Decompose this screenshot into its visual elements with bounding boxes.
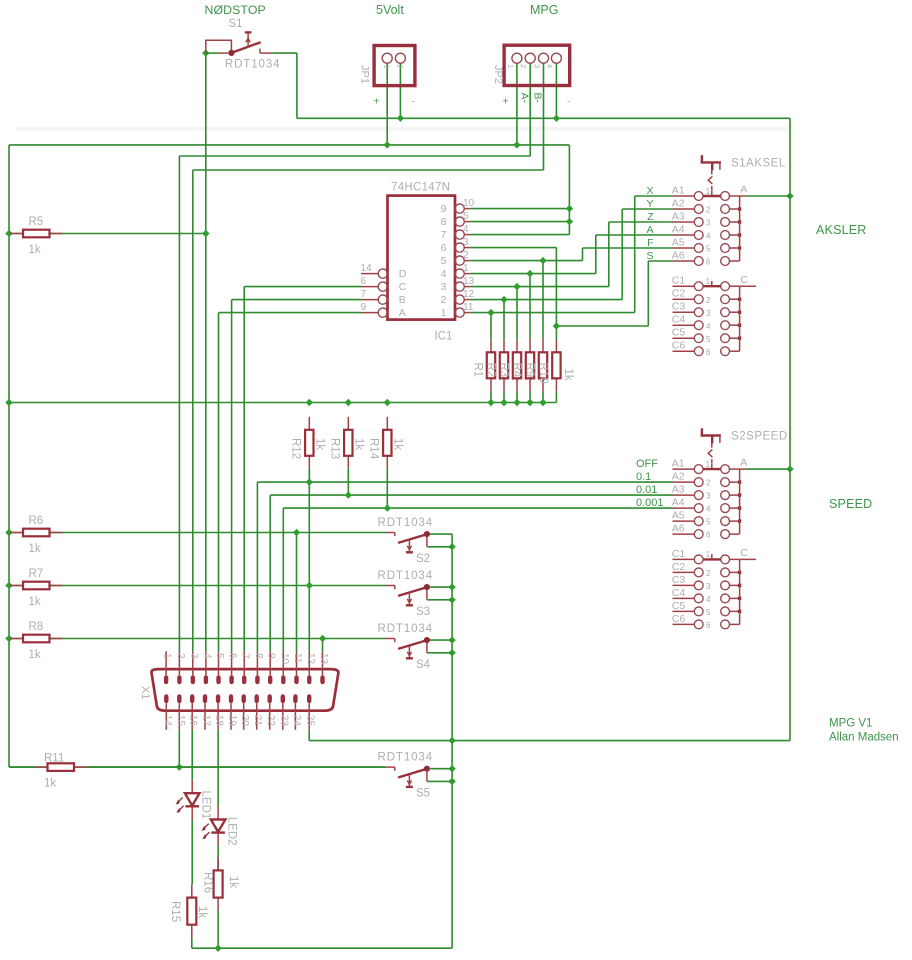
junction resistor bus xyxy=(500,399,507,406)
IC1 pin 5 xyxy=(441,211,471,228)
svg-text:A2: A2 xyxy=(672,197,685,209)
svg-text:R12: R12 xyxy=(290,438,302,459)
X1 pin 25 xyxy=(305,694,316,730)
wire X1 pin4 vertical NODSTOP xyxy=(205,53,207,651)
svg-text:1: 1 xyxy=(463,263,469,274)
svg-text:X1: X1 xyxy=(139,686,151,699)
wire col6 vertical xyxy=(555,248,557,340)
svg-text:A6: A6 xyxy=(672,523,685,535)
svg-text:C: C xyxy=(740,547,748,559)
svg-text:+: + xyxy=(503,96,509,108)
X1 pin 2 xyxy=(175,651,186,684)
wire resistor bank col1 top xyxy=(490,313,492,340)
svg-text:C2: C2 xyxy=(672,288,686,300)
svg-text:A3: A3 xyxy=(672,484,685,496)
svg-text:1k: 1k xyxy=(29,244,41,256)
X1 pin 3 xyxy=(188,651,199,684)
switch S1 RDT1034 NODSTOP xyxy=(202,32,297,56)
svg-text:5: 5 xyxy=(706,518,711,527)
wire IC pin4 row xyxy=(470,234,569,236)
svg-text:AKSLER: AKSLER xyxy=(816,223,867,237)
wire speed 0.01 row xyxy=(270,494,672,496)
junction resistor bus xyxy=(487,399,494,406)
wire resistor bank col6 bottom xyxy=(555,391,557,402)
svg-text:1: 1 xyxy=(706,277,711,286)
wire R15 bottom xyxy=(191,938,193,949)
junction bus / R12 xyxy=(306,399,313,406)
svg-text:1k: 1k xyxy=(227,876,239,888)
X1 pin 13 xyxy=(318,651,329,684)
X1 pin 8 xyxy=(253,651,264,684)
wire R12 bottom xyxy=(308,469,310,482)
resistor R9 xyxy=(542,339,544,352)
resistor R1 xyxy=(490,339,492,352)
rotary contact row C4 xyxy=(672,314,742,331)
junction 5V jog / IC pin10 xyxy=(566,205,573,212)
rotary contact row A5 xyxy=(647,236,741,253)
svg-text:C5: C5 xyxy=(672,327,686,339)
junction rail / S5 lower xyxy=(448,778,455,785)
svg-text:1: 1 xyxy=(441,307,447,319)
wire net X row xyxy=(635,195,673,197)
junction resistor bus xyxy=(513,399,520,406)
wire resistor bus xyxy=(9,402,556,404)
svg-text:1k: 1k xyxy=(392,438,404,450)
wire left rail xyxy=(8,145,10,767)
junction S1 net / JP2 pin4 xyxy=(553,115,560,122)
svg-text:12: 12 xyxy=(305,653,316,665)
svg-text:5: 5 xyxy=(214,653,225,659)
wire JP1 pin2 drop xyxy=(399,63,401,118)
svg-text:C6: C6 xyxy=(672,340,686,352)
svg-text:C3: C3 xyxy=(672,574,686,586)
wire IC pin10 row xyxy=(470,208,569,210)
wire net F riser xyxy=(582,248,584,261)
wire net Z row xyxy=(609,221,673,223)
svg-text:R1: R1 xyxy=(472,363,484,378)
svg-text:10: 10 xyxy=(279,653,290,665)
wire IC output B xyxy=(232,299,361,301)
X1 pin 17 xyxy=(201,694,212,730)
svg-text:RDT1034: RDT1034 xyxy=(378,570,434,582)
svg-text:1: 1 xyxy=(162,653,173,659)
wire X1 pin7 vertical xyxy=(243,287,245,652)
wire resistor bank col3 bottom xyxy=(516,391,518,402)
svg-text:11: 11 xyxy=(463,302,474,313)
IC U1 74HC147N body xyxy=(388,196,456,320)
svg-text:5: 5 xyxy=(706,245,711,254)
svg-text:R8: R8 xyxy=(29,621,44,633)
X1 pin 10 xyxy=(279,651,290,684)
svg-text:17: 17 xyxy=(201,715,212,727)
svg-text:RDT1034: RDT1034 xyxy=(378,517,434,529)
svg-text:R15: R15 xyxy=(169,901,181,922)
svg-text:IC1: IC1 xyxy=(435,331,453,343)
svg-text:2: 2 xyxy=(519,64,528,68)
rotary contact row C5 xyxy=(672,600,742,617)
svg-text:SPEED: SPEED xyxy=(829,497,872,511)
IC1 pin 14 (D) xyxy=(361,263,407,280)
wire X1 pin16 drop to LED1 xyxy=(191,730,193,780)
X1 pin 4 xyxy=(201,651,212,684)
wire S1 net horizontal xyxy=(297,117,790,119)
svg-text:4: 4 xyxy=(201,653,212,659)
svg-text:C1: C1 xyxy=(672,275,686,287)
svg-text:4: 4 xyxy=(545,64,554,68)
svg-text:A4: A4 xyxy=(672,497,685,509)
svg-text:5: 5 xyxy=(706,335,711,344)
junction resistor bus xyxy=(526,399,533,406)
svg-text:74HC147N: 74HC147N xyxy=(391,182,450,194)
svg-text:-: - xyxy=(412,96,416,108)
svg-text:Y: Y xyxy=(646,198,653,210)
svg-text:JP1: JP1 xyxy=(359,65,371,84)
junction IC pin12 row / col2 xyxy=(500,296,507,303)
rotary contact row C4 xyxy=(672,587,742,604)
junction left rail / R8 xyxy=(5,635,12,642)
LED LED1 xyxy=(176,780,200,819)
wire net Z riser xyxy=(608,222,610,287)
junction 0.01 row / R13 xyxy=(345,491,352,498)
switch S1AKSEL shaft bracket xyxy=(701,155,721,190)
svg-text:3: 3 xyxy=(441,281,447,293)
rotary contact row A1 xyxy=(646,184,739,200)
svg-text:23: 23 xyxy=(278,715,289,727)
svg-text:6: 6 xyxy=(227,653,238,659)
svg-text:3: 3 xyxy=(188,653,199,659)
wire X1 pin2 vertical xyxy=(178,156,180,651)
wire net Y row xyxy=(622,208,672,210)
wire X1 pin8 vertical xyxy=(256,482,258,651)
svg-text:C6: C6 xyxy=(672,613,686,625)
svg-text:4: 4 xyxy=(706,505,711,514)
svg-text:0.1: 0.1 xyxy=(636,471,651,483)
wire JP2 B- run xyxy=(543,63,545,170)
svg-text:1k: 1k xyxy=(29,596,41,608)
junction IC pin13 row / col3 xyxy=(513,283,520,290)
junction left rail / R6 xyxy=(5,529,12,536)
svg-text:16: 16 xyxy=(188,715,199,727)
switch S5 RDT1034 xyxy=(378,752,453,800)
svg-text:RDT1034: RDT1034 xyxy=(378,752,434,764)
svg-text:R16: R16 xyxy=(202,872,214,893)
wire resistor bank col4 bottom xyxy=(529,391,531,402)
junction 5V jog / IC pin5 xyxy=(566,218,573,225)
svg-text:6: 6 xyxy=(361,276,367,287)
wire resistor bank col5 bottom xyxy=(542,391,544,402)
common pin wire to rail xyxy=(740,468,746,470)
svg-text:5: 5 xyxy=(463,211,469,222)
svg-text:14: 14 xyxy=(361,263,373,274)
wire R11 left xyxy=(9,766,35,768)
wire X1 pin13 vertical xyxy=(322,639,324,652)
junction left rail / R5 xyxy=(5,230,12,237)
junction rail / S4 pivot xyxy=(448,636,455,643)
resistor R14 xyxy=(386,417,388,430)
svg-text:A4: A4 xyxy=(672,223,685,235)
rotary contact row A6 xyxy=(646,249,739,266)
svg-text:1: 1 xyxy=(706,187,711,196)
IC1 pin 2 xyxy=(441,250,471,267)
junction R5 / NODSTOP net xyxy=(202,230,209,237)
junction bus / R14 xyxy=(384,399,391,406)
svg-text:10: 10 xyxy=(463,198,475,209)
IC1 pin 4 xyxy=(441,224,471,241)
wire S1 net drop xyxy=(296,53,298,118)
wire JP1 pin1 drop xyxy=(386,63,388,145)
rotary contact row C6 xyxy=(672,340,740,357)
svg-text:R4: R4 xyxy=(511,363,523,378)
svg-text:R13: R13 xyxy=(329,438,341,459)
svg-text:C4: C4 xyxy=(672,587,686,599)
svg-text:7: 7 xyxy=(441,229,447,241)
svg-text:25: 25 xyxy=(305,715,316,727)
svg-text:C1: C1 xyxy=(672,548,686,560)
resistor R12 xyxy=(308,417,310,430)
svg-text:6: 6 xyxy=(706,531,711,540)
junction rail / SPEED common xyxy=(786,465,793,472)
rotary common bar xyxy=(739,469,741,534)
svg-text:R11: R11 xyxy=(44,753,64,765)
svg-text:MPG: MPG xyxy=(530,3,558,17)
svg-text:C4: C4 xyxy=(672,314,686,326)
wire IC pin3 row xyxy=(470,247,556,249)
X1 pin 19 xyxy=(227,694,238,730)
wire net Y riser xyxy=(621,209,623,300)
svg-text:3: 3 xyxy=(463,237,469,248)
svg-text:C3: C3 xyxy=(672,301,686,313)
svg-text:2: 2 xyxy=(706,206,711,215)
wire R11 right xyxy=(87,766,386,768)
wire R13 bottom xyxy=(347,469,349,495)
svg-text:R6: R6 xyxy=(29,515,44,527)
IC1 pin 1 xyxy=(441,263,471,280)
wire LED2 to R16 xyxy=(217,845,219,870)
X1 pin 23 xyxy=(278,694,289,730)
svg-text:A5: A5 xyxy=(672,236,685,248)
svg-text:11: 11 xyxy=(292,653,303,664)
resistor R8 xyxy=(10,638,23,640)
svg-text:1: 1 xyxy=(506,64,515,68)
wire 5V bus vertical jog xyxy=(568,145,570,235)
X1 pin 14 xyxy=(162,694,173,730)
svg-text:C: C xyxy=(740,274,748,286)
wire JP2 A- run xyxy=(529,63,531,156)
svg-text:4: 4 xyxy=(706,322,711,331)
svg-text:4: 4 xyxy=(706,232,711,241)
IC1 pin 6 (C) xyxy=(361,276,407,293)
wire X1 pin11 vertical xyxy=(296,533,298,652)
svg-text:S4: S4 xyxy=(416,659,431,671)
svg-text:A2: A2 xyxy=(672,471,685,483)
junction IC pin1 row / col4 xyxy=(526,270,533,277)
wire IC pin2 row xyxy=(470,260,582,262)
junction 5V bus / JP1 pin1 xyxy=(384,141,391,148)
svg-text:S1AKSEL: S1AKSEL xyxy=(731,158,786,170)
IC1 pin 12 xyxy=(441,289,475,306)
svg-text:Allan Madsen: Allan Madsen xyxy=(829,732,899,744)
svg-text:4: 4 xyxy=(441,268,447,280)
svg-text:1k: 1k xyxy=(196,906,208,918)
rotary contact row C6 xyxy=(672,613,740,630)
junction rail / S3 lower xyxy=(448,596,455,603)
svg-text:R14: R14 xyxy=(368,438,380,460)
rotary contact row A4 xyxy=(636,497,741,514)
common pin stub xyxy=(740,285,756,287)
rotary contact row A1 xyxy=(636,458,740,474)
wire IC pin13 row xyxy=(470,286,609,288)
svg-text:24: 24 xyxy=(291,715,302,727)
faint scan artifact band xyxy=(16,127,790,131)
wire speed 0.1 row xyxy=(257,481,672,483)
svg-text:C5: C5 xyxy=(672,600,686,612)
X1 pin 12 xyxy=(305,651,316,684)
wire net S riser xyxy=(647,261,649,326)
svg-text:R7: R7 xyxy=(29,568,44,580)
rotary contact row C1 xyxy=(672,275,740,291)
svg-text:7: 7 xyxy=(361,289,367,300)
X1 pin 15 xyxy=(175,694,186,730)
svg-text:5: 5 xyxy=(706,608,711,617)
resistor R10 xyxy=(555,339,557,352)
svg-text:B: B xyxy=(399,294,406,306)
wire resistor bank col3 top xyxy=(516,287,518,340)
wire R11 row xyxy=(9,766,386,768)
resistor R6 xyxy=(10,532,23,534)
wire R6 row xyxy=(9,532,386,534)
wire net A row xyxy=(596,234,673,236)
junction col6 / net S xyxy=(553,322,560,329)
svg-text:A: A xyxy=(399,307,406,319)
svg-text:2: 2 xyxy=(706,296,711,305)
wire resistor bank col2 bottom xyxy=(503,391,505,402)
wire net S horizontal xyxy=(556,325,648,327)
svg-text:1: 1 xyxy=(706,460,711,469)
wire IC pin11 row xyxy=(470,312,634,314)
rotary common bar xyxy=(739,196,741,261)
svg-text:S2: S2 xyxy=(416,553,430,565)
svg-text:8: 8 xyxy=(253,653,264,659)
wire IC pin5 row xyxy=(470,221,569,223)
common pin stub xyxy=(740,558,756,560)
resistor R7 xyxy=(10,585,23,587)
wire IC output C xyxy=(244,286,361,288)
svg-text:2: 2 xyxy=(441,294,447,306)
svg-text:R9: R9 xyxy=(524,363,536,378)
wire X1 pin12 vertical xyxy=(308,469,310,652)
wire R14 bottom xyxy=(386,469,388,508)
junction IC pin2 row / col5 xyxy=(539,257,546,264)
X1 pin 21 xyxy=(252,694,263,730)
svg-text:JP2: JP2 xyxy=(492,65,504,84)
svg-text:LED2: LED2 xyxy=(225,817,237,846)
svg-text:7: 7 xyxy=(240,653,251,659)
svg-text:13: 13 xyxy=(463,276,475,287)
wire net A riser xyxy=(595,235,597,274)
LED LED2 xyxy=(202,807,226,846)
svg-text:A-: A- xyxy=(518,93,530,104)
junction bottom return / switch rail xyxy=(448,737,455,744)
rotary contact row C3 xyxy=(672,301,742,318)
wire X1 pin15 drop xyxy=(178,730,180,767)
svg-text:1k: 1k xyxy=(562,369,574,381)
IC1 pin 3 xyxy=(441,237,471,254)
rotary contact row A3 xyxy=(647,210,741,227)
svg-text:D: D xyxy=(399,268,407,280)
svg-text:12: 12 xyxy=(463,289,475,300)
svg-text:A: A xyxy=(740,184,747,196)
X1 pin 9 xyxy=(266,651,277,684)
svg-text:9: 9 xyxy=(361,302,367,313)
IC1 pin 9 (A) xyxy=(361,302,406,319)
junction left rail / bus xyxy=(5,399,12,406)
svg-text:3: 3 xyxy=(706,492,711,501)
connector X1 DB25 shell xyxy=(151,669,338,711)
svg-text:C: C xyxy=(399,281,407,293)
wire R16 bottom xyxy=(217,911,219,949)
svg-text:A3: A3 xyxy=(672,210,685,222)
svg-text:LED1: LED1 xyxy=(200,791,212,820)
svg-text:4: 4 xyxy=(463,224,469,235)
rotary contact row A6 xyxy=(672,523,740,540)
junction rail / S4 lower xyxy=(448,649,455,656)
junction bus / R13 xyxy=(345,399,352,406)
wire R5 row xyxy=(9,233,206,235)
svg-text:9: 9 xyxy=(266,653,277,659)
svg-text:RDT1034: RDT1034 xyxy=(378,623,434,635)
rotary common bar xyxy=(739,286,741,351)
svg-text:2: 2 xyxy=(396,65,405,69)
wire resistor bank col2 top xyxy=(503,300,505,340)
junction rail / S3 pivot xyxy=(448,583,455,590)
common pin wire to rail xyxy=(740,195,746,197)
svg-text:X: X xyxy=(646,185,653,197)
junction IC pin11 row / col1 xyxy=(487,309,494,316)
svg-text:8: 8 xyxy=(441,216,447,228)
svg-text:13: 13 xyxy=(318,653,329,665)
svg-text:Z: Z xyxy=(647,211,654,223)
wire IC pin1 row xyxy=(470,273,596,275)
junction rail / S5 pivot xyxy=(448,765,455,772)
wire right rail xyxy=(789,118,791,740)
junction 0.1 row / R12 xyxy=(306,478,313,485)
svg-text:S2SPEED: S2SPEED xyxy=(731,431,788,443)
wire JP2 pin1 drop xyxy=(516,63,518,145)
switch S2 RDT1034 xyxy=(378,517,453,565)
svg-text:1k: 1k xyxy=(29,543,41,555)
resistor R3 xyxy=(516,339,518,352)
wire resistor bank col4 top xyxy=(529,274,531,340)
svg-text:MPG V1: MPG V1 xyxy=(829,718,872,730)
svg-text:1k: 1k xyxy=(29,649,41,661)
svg-text:+: + xyxy=(374,96,380,108)
X1 pin 22 xyxy=(265,694,276,730)
switch S2SPEED shaft bracket xyxy=(701,428,721,463)
junction 5V bus / JP2 pin1 xyxy=(513,141,520,148)
junction 0.001 row / R14 xyxy=(384,504,391,511)
wire LED1 to R15 xyxy=(191,819,193,885)
switch S3 RDT1034 xyxy=(378,570,453,618)
resistor R11 xyxy=(35,766,48,768)
resistor R4 xyxy=(529,339,531,352)
resistor R15 xyxy=(191,885,193,898)
X1 pin 24 xyxy=(291,694,302,730)
svg-text:5Volt: 5Volt xyxy=(376,3,404,17)
svg-text:B-: B- xyxy=(532,93,544,104)
wire IC pin12 row xyxy=(470,299,622,301)
svg-text:R2: R2 xyxy=(485,363,497,378)
svg-text:9: 9 xyxy=(441,203,447,215)
